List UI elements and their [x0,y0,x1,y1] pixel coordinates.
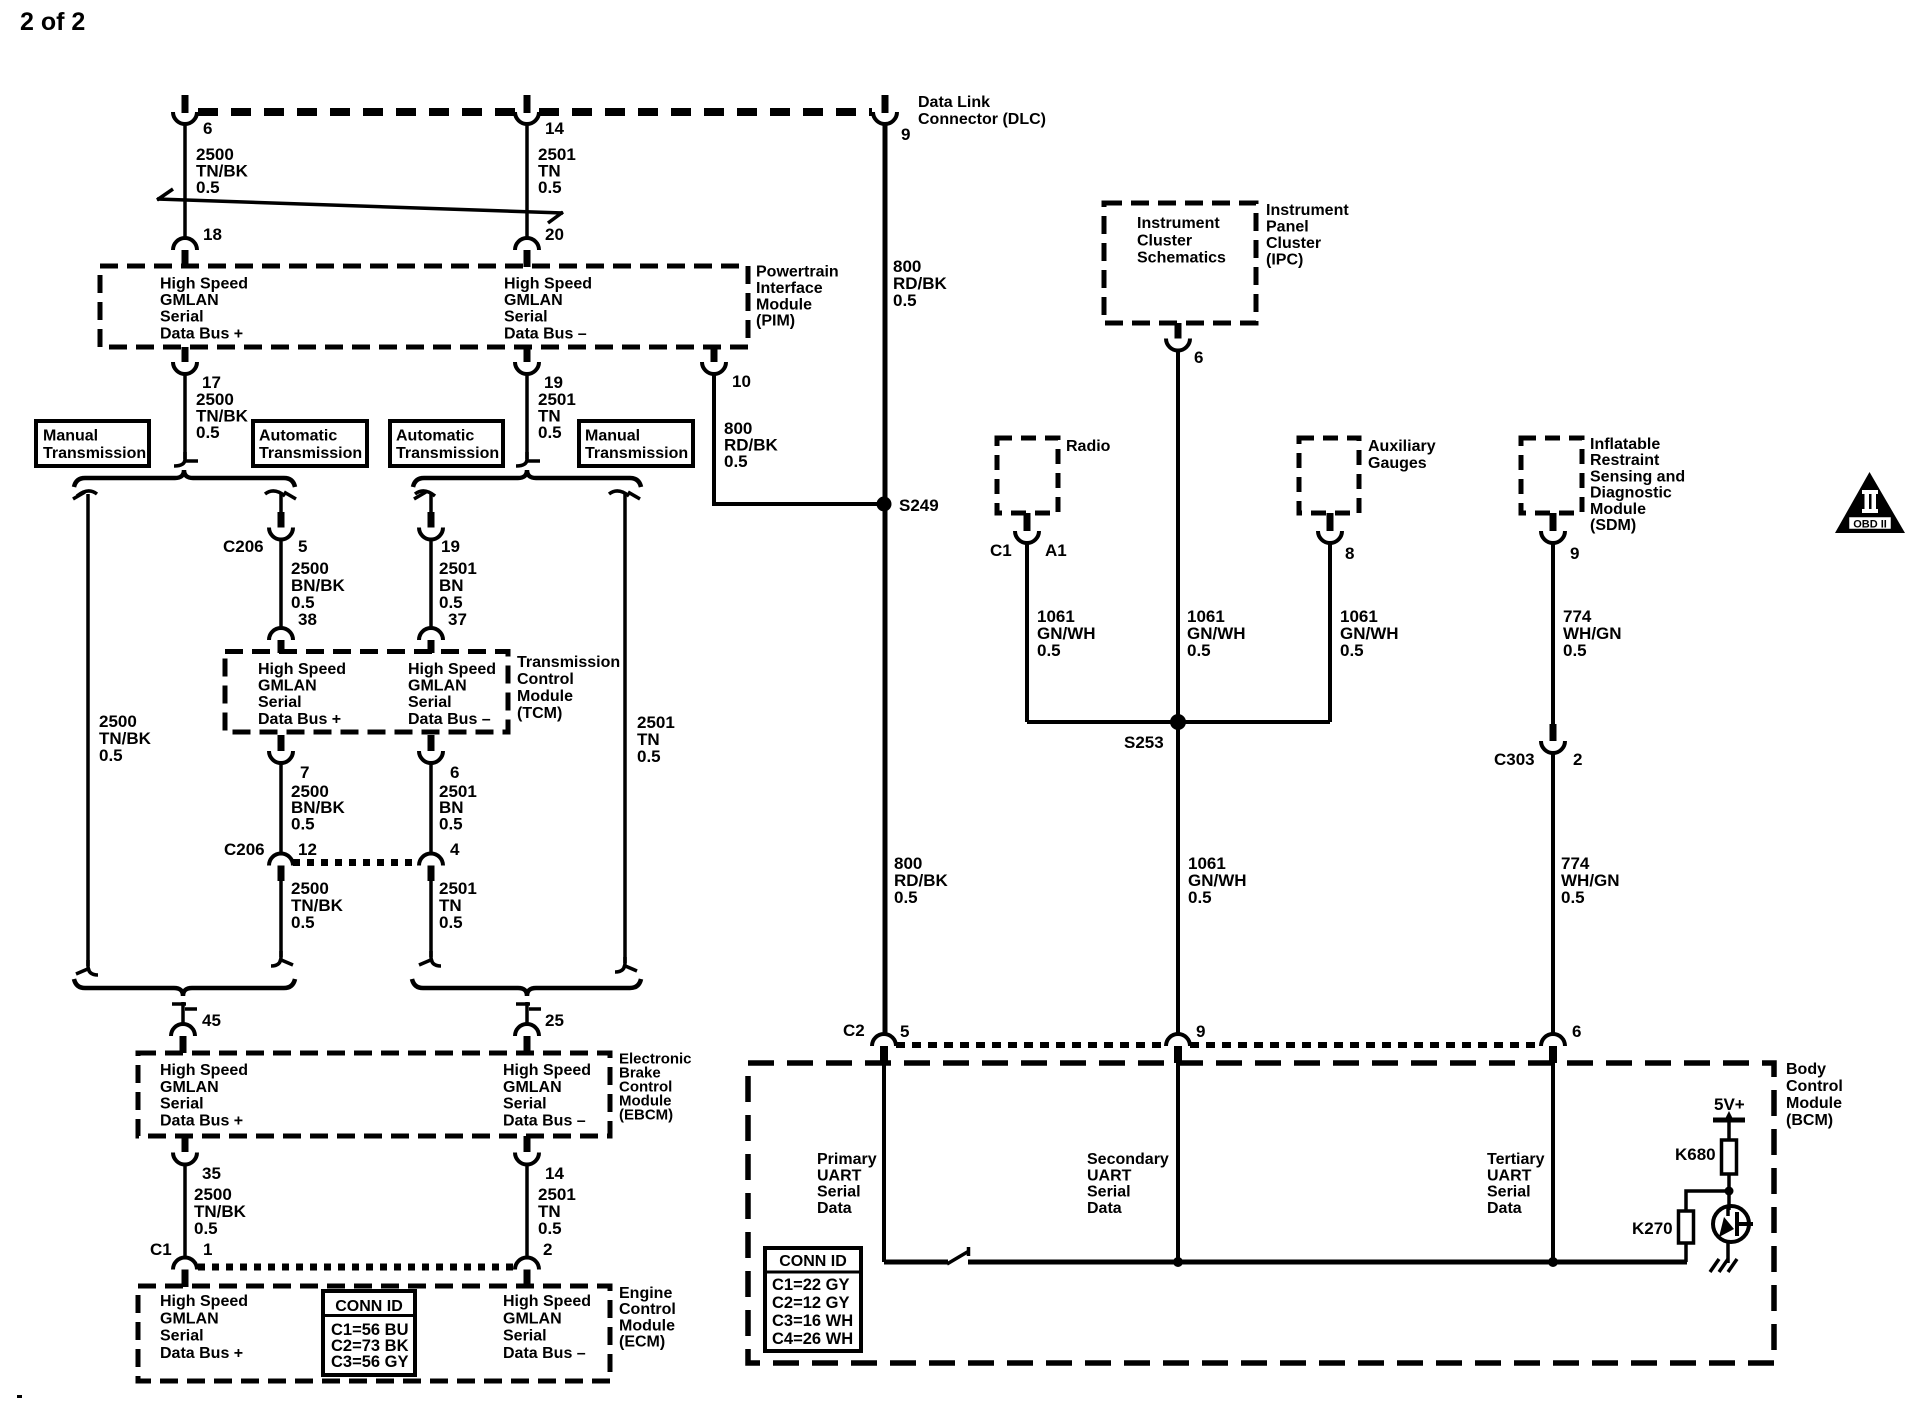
label C206 (5) [223,537,264,556]
wire label 2500 TN/BK 0.5 (17) [196,390,249,442]
svg-text:C1=56 BUC2=73 BKC3=56 GY: C1=56 BUC2=73 BKC3=56 GY [331,1321,409,1371]
brace bottom left [74,979,295,996]
pin label 5 [298,537,307,556]
svg-text:C1: C1 [150,1240,172,1259]
text Primary UART [817,1151,877,1217]
connector BCM C2 pin 5 [872,1034,896,1063]
svg-text:C1: C1 [990,541,1012,560]
wire primary UART drop [882,1063,886,1262]
wire label 2501 BN 0.5 (6) [439,782,477,833]
wire tertiary UART drop [1551,1063,1555,1262]
connector pin 2 [515,1258,539,1288]
wire 2501 TN pin14-pin20 [525,124,529,238]
pin label 8 [1345,544,1354,563]
brace bottom right [412,979,641,996]
connector pin 38 [269,628,293,653]
splice squiggle pin 25 [516,1002,541,1026]
svg-text:9: 9 [901,125,910,144]
resistor K270 [1679,1211,1694,1243]
wire 2500 TN/BK (12) [279,881,283,957]
wire to K270 [1684,1243,1688,1262]
splice squiggle pin 45 [172,1002,197,1026]
module Radio box [997,438,1058,513]
pin label 18 [203,225,222,244]
wire 800 RD/BK DLC vertical [883,124,888,1034]
wire LED to ground [1726,1242,1730,1263]
brace top left [74,470,295,487]
wire 2500 TN/BK (35) [183,1164,187,1258]
wire 1061 GN/WH radio [1025,543,1029,722]
pin label 7 [300,763,309,782]
svg-text:14: 14 [545,1164,564,1183]
pin label 2 (C303) [1573,750,1582,769]
svg-text:35: 35 [202,1164,221,1183]
wire label 2500 TN/BK 0.5 [196,145,249,197]
pin label 25 [545,1011,564,1030]
connector C206 pin 12 [269,854,293,882]
wire label 2500 TN/BK 0.5 (35) [194,1185,247,1238]
connector BCM pin 9 [1166,1034,1190,1063]
hook bottom left wire [76,960,98,975]
module TCM box [225,652,508,733]
wire label 774 WH/GN 0.5 [1563,607,1622,660]
module IPC box [1104,203,1256,323]
svg-text:CONN ID: CONN ID [335,1298,403,1315]
pin label 19 (C206) [441,537,460,556]
pin label 9 (SDM) [1570,544,1579,563]
ECM text Data Bus - [503,1293,591,1362]
svg-text:6: 6 [1194,348,1203,367]
wire label 2501 BN 0.5 [439,559,477,612]
connector C206 pin 19 [419,512,443,540]
box Automatic Transmission 2 [390,421,503,466]
PIM text Data Bus - [504,276,592,343]
module Auxiliary Gauges box [1299,438,1359,513]
text Tertiary UART [1487,1151,1545,1217]
wire C206 pin19 drop [429,494,433,514]
connector pin 7 [269,735,293,763]
SDM name label [1590,436,1685,534]
svg-text:14: 14 [545,119,564,138]
text Manual Transmission 2 [585,428,688,463]
svg-text:38: 38 [298,610,317,629]
svg-text:6: 6 [450,763,459,782]
resistor K680 [1722,1140,1737,1174]
pin label 4 [450,840,460,859]
pin label 6 [203,119,212,138]
TCM name label [517,654,620,722]
IPC name label [1266,202,1349,269]
wire label 2501 TN 0.5 (tall) [637,713,675,766]
label Data Link Connector (DLC) [918,94,1046,128]
svg-text:C206: C206 [224,840,265,859]
svg-text:8: 8 [1345,544,1354,563]
wire junction to K680 [1727,1174,1731,1191]
pin label 2 [543,1240,552,1259]
connector pin 10 [702,347,726,374]
ECM name label [619,1285,676,1351]
TCM text Data Bus - [408,661,496,728]
svg-text:45: 45 [202,1011,221,1030]
label K680 [1675,1145,1716,1164]
box Manual Transmission 2 [579,421,693,466]
wire 1061 GN/WH IPC [1176,350,1180,1034]
label S253 [1124,733,1164,752]
box Automatic Transmission 1 [253,421,367,466]
wire junction to LED [1727,1191,1731,1210]
wire label 2500 BN/BK 0.5 (7) [291,782,346,833]
pin label 9 [901,125,910,144]
svg-text:4: 4 [450,840,460,859]
junction dot K680 [1725,1187,1734,1196]
hook wire 2501 right [609,491,640,499]
svg-text:2: 2 [1573,750,1582,769]
module BCM box [748,1063,1774,1363]
wire 774 WH/GN lower [1551,753,1555,1034]
wire label 1061 GN/WH 0.5 (radio) [1037,607,1096,660]
label 5V+ [1714,1095,1745,1114]
EBCM name label [619,1051,692,1124]
wire 2500 BN/BK (7) [279,763,283,854]
IPC text [1137,215,1226,267]
label C2 [843,1021,865,1040]
svg-text:6: 6 [1572,1022,1581,1041]
text Manual Transmission 1 [43,428,146,463]
module ECM box [138,1286,610,1381]
connector BCM pin 6 [1541,1034,1565,1063]
wire label 1061 GN/WH 0.5 (aux) [1340,607,1399,660]
svg-text:S253: S253 [1124,733,1164,752]
label C206 (12) [224,840,265,859]
svg-text:C303: C303 [1494,750,1535,769]
wire 2501 TN tall right [623,494,627,963]
label K270 [1632,1219,1673,1238]
connector aux pin 8 [1318,513,1342,543]
splice S253 [1170,714,1186,730]
CONN ID table (BCM) [765,1248,861,1351]
svg-text:5: 5 [900,1022,909,1041]
label C303 [1494,750,1535,769]
wire label 800 RD/BK 0.5 (DLC) [893,257,948,310]
label C1 (radio) [990,541,1012,560]
EBCM text Data Bus - [503,1062,591,1129]
ECM text Data Bus + [160,1293,248,1362]
wire 2500 TN/BK tall left [86,494,90,966]
splice S249 [877,497,892,512]
module SDM box [1521,438,1582,513]
svg-text:37: 37 [448,610,467,629]
connector pin 35 [173,1136,197,1165]
wire 774 WH/GN SDM [1551,543,1555,726]
hook bottom C206-4 wire [419,951,441,966]
OBD II symbol [1835,472,1905,533]
svg-text:7: 7 [300,763,309,782]
CONN ID table (ECM) [323,1291,415,1375]
box Manual Transmission 1 [36,421,149,466]
pin label 5 (BCM) [900,1022,909,1041]
pin label 38 [298,610,317,629]
wire label 2501 TN 0.5 (14) [538,1185,576,1238]
hook bottom right wire [615,957,637,972]
svg-text:A1: A1 [1045,541,1067,560]
dotted link C206 12-4 [293,859,419,866]
module PIM box [100,266,748,347]
pin label 45 [202,1011,221,1030]
ground symbol [1710,1259,1737,1272]
brace top right [413,470,641,487]
pin label 12 [298,840,317,859]
pin label 37 [448,610,467,629]
connector pin 14 EBCM [515,1136,539,1165]
dotted link pins 1-2 [198,1264,515,1271]
wire 1061 GN/WH aux [1328,543,1332,722]
label Radio [1066,438,1111,455]
svg-text:9: 9 [1570,544,1579,563]
svg-text:20: 20 [545,225,564,244]
pin label 6 (TCM) [450,763,459,782]
pin label 6 (BCM) [1572,1022,1581,1041]
connector pin 37 [419,628,443,653]
wire label 1061 GN/WH 0.5 (IPC) [1187,607,1246,660]
connector DLC pin 14 [515,95,539,124]
wire UART bus main [968,1260,1687,1265]
connector DLC pin 6 [173,95,197,124]
pin label 1 [203,1240,212,1259]
svg-text:5: 5 [298,537,307,556]
wire 2501 TN (4) [429,881,433,957]
connector C206 pin 4 [419,854,443,882]
pin label 14 [545,119,564,138]
wire 800 RD/BK pin10 to S249 [714,374,884,504]
connector pin 25 [515,1024,539,1053]
wire 2500 pin17 to brace [174,374,198,466]
svg-text:Radio: Radio [1066,438,1111,455]
wire 2501 BN [429,540,433,629]
pin label 10 [732,372,751,391]
pin label 9 (BCM) [1196,1022,1205,1041]
svg-text:S249: S249 [899,496,939,515]
junction dot secondary [1173,1257,1183,1267]
wire 2501 pin19 to brace [516,374,540,466]
PIM text Data Bus + [160,276,248,343]
dotted BCM pin line [896,1042,1541,1048]
wire label 2501 TN 0.5 [538,145,576,197]
pin label 17 [202,373,221,392]
connector pin 6 TCM [419,735,443,763]
svg-text:C1=22 GYC2=12 GYC3=16 WHC4=26: C1=22 GYC2=12 GYC3=16 WHC4=26 WH [772,1276,853,1348]
svg-text:C206: C206 [223,537,264,556]
svg-text:AuxiliaryGauges: AuxiliaryGauges [1368,438,1436,472]
connector pin 45 [171,1024,195,1053]
wire 2501 BN (6) [429,763,433,854]
hook wire C206-5 [265,491,296,499]
svg-text:2: 2 [543,1240,552,1259]
hook wire C206-19 [414,491,435,499]
junction dot tertiary [1548,1257,1558,1267]
wire secondary UART drop [1176,1063,1180,1262]
connector C206 pin 5 [269,512,293,540]
wire data link dotted bus [198,108,872,116]
svg-text:25: 25 [545,1011,564,1030]
pin label 14 (EBCM) [545,1164,564,1183]
module EBCM box [138,1053,610,1136]
wire label 2500 TN/BK 0.5 (tall) [99,712,152,765]
connector C1 pin 1 [173,1258,197,1288]
pin label 20 [545,225,564,244]
connector DLC pin 9 [873,95,897,124]
wire 2500 BN/BK [279,540,283,629]
wire label 2500 BN/BK 0.5 [291,559,346,612]
connector pin 18 [173,238,197,267]
pin label 19 [544,373,563,392]
wire 2501 TN (14) [525,1164,529,1258]
wire 2500 TN/BK pin6-pin18 [183,124,187,238]
hook wire 2500 left [73,491,97,499]
svg-text:CONN ID: CONN ID [779,1253,847,1270]
power symbol 5V+ [1713,1111,1745,1121]
wire label 1061 GN/WH 0.5 (lower) [1188,854,1247,907]
connector IPC pin 6 [1166,323,1190,351]
svg-text:OBD II: OBD II [1853,519,1887,531]
svg-text:1: 1 [203,1240,212,1259]
PIM name label [756,264,839,330]
svg-text:19: 19 [441,537,460,556]
wire C206 pin5 drop [279,494,283,514]
pin label 35 [202,1164,221,1183]
connector C303 pin 2 [1541,724,1565,753]
connector pin 19 [515,347,539,374]
connector radio C1 A1 [1015,513,1039,543]
LED indicator [1713,1206,1753,1242]
wire label 774 WH/GN 0.5 (lower) [1561,854,1620,907]
wire K680 to 5V [1727,1121,1731,1140]
hook bottom C206-12 wire [271,951,293,966]
switch blade [947,1247,969,1264]
page label "2 of 2" [20,8,85,36]
TCM text Data Bus + [258,661,346,728]
svg-text:C2: C2 [843,1021,865,1040]
connector SDM pin 9 [1541,513,1565,543]
page mark dot [17,1395,22,1398]
label A1 [1045,541,1067,560]
label Auxiliary Gauges [1368,438,1436,472]
connector pin 17 [173,347,197,374]
svg-text:2 of 2: 2 of 2 [20,8,85,36]
connector pin 20 [515,238,539,267]
text Automatic Transmission 2 [396,428,499,463]
svg-text:K270: K270 [1632,1219,1673,1238]
wire radio-aux horizontal [1027,720,1330,724]
wire label 2500 TN/BK 0.5 (12) [291,879,344,932]
wire label 2501 TN 0.5 (19) [538,390,576,442]
svg-text:10: 10 [732,372,751,391]
svg-text:18: 18 [203,225,222,244]
pin label 6 (IPC) [1194,348,1203,367]
text Secondary UART [1087,1151,1169,1217]
wire label 800 RD/BK 0.5 [724,419,779,471]
EBCM text Data Bus + [160,1062,248,1129]
label S249 [899,496,939,515]
text Automatic Transmission 1 [259,428,362,463]
twisted pair arrow [157,189,563,223]
wire label 2501 TN 0.5 (4) [439,879,477,932]
BCM name label [1786,1061,1843,1129]
wire UART bus left [884,1260,948,1265]
svg-text:K680: K680 [1675,1145,1716,1164]
svg-text:5V+: 5V+ [1714,1095,1745,1114]
svg-text:9: 9 [1196,1022,1205,1041]
wire label 800 RD/BK 0.5 (lower) [894,854,949,907]
svg-text:6: 6 [203,119,212,138]
label C1 (ECM) [150,1240,172,1259]
svg-text:12: 12 [298,840,317,859]
wire K270 to junction [1686,1191,1729,1211]
